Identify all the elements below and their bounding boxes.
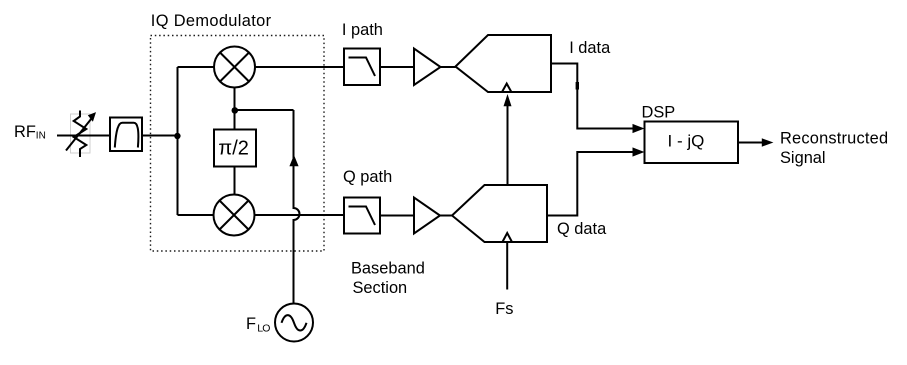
svg-text:F: F [246, 315, 256, 333]
svg-text:I data: I data [569, 39, 611, 57]
svg-text:Reconstructed: Reconstructed [780, 129, 888, 147]
svg-text:IN: IN [36, 131, 46, 142]
svg-text:IQ Demodulator: IQ Demodulator [151, 12, 272, 30]
svg-text:Section: Section [353, 279, 408, 297]
svg-text:DSP: DSP [642, 104, 676, 122]
svg-text:Baseband: Baseband [351, 259, 425, 277]
svg-text:Q data: Q data [557, 220, 607, 238]
svg-text:Q path: Q path [343, 168, 392, 186]
svg-text:π/2: π/2 [218, 137, 248, 159]
svg-text:Signal: Signal [780, 149, 826, 167]
svg-text:LO: LO [257, 322, 270, 334]
svg-text:I path: I path [342, 21, 383, 39]
svg-text:I - jQ: I - jQ [668, 131, 705, 150]
svg-text:Fs: Fs [495, 300, 513, 318]
svg-text:RF: RF [14, 123, 36, 141]
